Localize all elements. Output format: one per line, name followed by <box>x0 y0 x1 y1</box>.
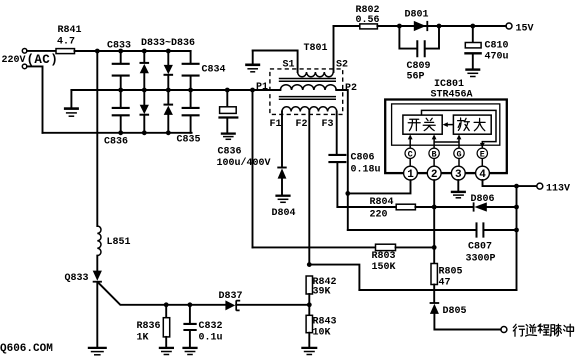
electrode circle G <box>454 148 464 158</box>
svg-text:B: B <box>432 149 437 159</box>
ground at mid rail left <box>70 90 72 108</box>
svg-text:47: 47 <box>439 278 451 289</box>
wire Q833 emitter diagonal <box>98 283 225 305</box>
svg-text:R805: R805 <box>439 267 463 278</box>
wire mid rail y90 <box>71 89 280 91</box>
wire top rail y51 <box>75 50 191 52</box>
svg-text:G: G <box>456 149 461 159</box>
wire AC bottom L-shape <box>27 66 43 132</box>
wire P1 column down <box>252 90 254 247</box>
terminal 113V <box>537 183 543 189</box>
node C832 <box>188 302 193 307</box>
svg-text:C836: C836 <box>104 137 128 148</box>
svg-text:R843: R843 <box>313 317 337 328</box>
wire pin2 column <box>433 180 435 263</box>
svg-text:R836: R836 <box>137 321 161 332</box>
pin 1 <box>404 166 418 180</box>
ground at Q833 <box>88 347 107 349</box>
core lines bottom <box>279 97 336 100</box>
electrode circle E <box>477 148 487 158</box>
svg-text:IC801: IC801 <box>434 79 464 90</box>
wire junction down to C807 line <box>347 193 349 230</box>
pin 4 <box>476 166 490 180</box>
diode D836 (col2 bottom, pointing up) <box>167 90 169 104</box>
arrow into 放大 from G <box>458 138 460 148</box>
diode D835 (col2 top, pointing down) <box>167 51 169 65</box>
svg-text:470u: 470u <box>485 52 509 63</box>
svg-text:0.1u: 0.1u <box>199 333 223 344</box>
node P1 <box>250 88 255 93</box>
svg-text:0.18u: 0.18u <box>351 165 381 176</box>
svg-text:D804: D804 <box>272 208 296 219</box>
svg-text:R841: R841 <box>58 25 82 36</box>
node R836 <box>164 302 169 307</box>
wire S2 up to 15V rail <box>333 26 335 72</box>
diode D805 <box>430 302 440 304</box>
svg-text:F2: F2 <box>296 119 308 130</box>
capacitor C806 <box>336 112 338 154</box>
svg-text:S1: S1 <box>283 60 295 71</box>
resistor R836 <box>165 305 167 318</box>
node D801 right <box>437 24 442 29</box>
svg-text:C: C <box>408 149 413 159</box>
svg-text:D805: D805 <box>443 306 467 317</box>
svg-text:150K: 150K <box>372 262 396 273</box>
resistor R841 <box>56 49 75 54</box>
terminal 行逆程脉冲 <box>501 327 507 333</box>
wire S1 to ground <box>253 51 298 73</box>
svg-text:39K: 39K <box>313 287 331 298</box>
svg-text:R803: R803 <box>372 251 396 262</box>
wire F2 node right and down <box>309 265 359 290</box>
label 行逆程脉冲 (horizontal retrace pulse) <box>513 324 524 336</box>
wire left column x97 down to L851 <box>96 51 98 226</box>
connectors electrode to pins <box>410 159 482 167</box>
svg-text:D801: D801 <box>405 10 429 21</box>
svg-text:D833~D836: D833~D836 <box>141 38 195 49</box>
transformer T801 dashed box <box>270 69 343 115</box>
svg-text:100u/400V: 100u/400V <box>217 157 271 169</box>
wire AC top to R841 <box>27 50 56 52</box>
svg-text:C809: C809 <box>407 61 431 72</box>
terminal 15V <box>506 23 512 29</box>
node R842/R843/D837 <box>307 302 312 307</box>
terminal 220V AC top <box>22 49 27 54</box>
resistor R803 <box>253 246 376 248</box>
wire 113V rail down <box>516 186 518 290</box>
wire bottom rail y133 <box>43 132 192 134</box>
wire pin4 to 113V <box>483 180 517 186</box>
ground at R843 <box>301 347 317 349</box>
IC801 outer box <box>385 100 507 174</box>
node D801 left <box>397 24 402 29</box>
node pin2/R804/D806 <box>432 205 437 210</box>
arrow into 开关 from B <box>433 138 435 148</box>
electrode circle C <box>405 148 415 158</box>
wire E vertical <box>481 143 483 148</box>
ground at D804 <box>275 195 290 197</box>
resistor R805 <box>431 264 437 285</box>
pin 2 <box>427 166 441 180</box>
diode D804 <box>281 112 283 167</box>
wire P2 down <box>336 90 348 193</box>
svg-text:15V: 15V <box>516 24 534 35</box>
svg-text:C832: C832 <box>199 321 223 332</box>
capacitor C807 <box>348 229 476 231</box>
svg-text:0.56: 0.56 <box>356 15 380 26</box>
resistor R843 <box>306 315 312 332</box>
ground at pin 3 <box>457 180 459 191</box>
winding F1-F2-F3 <box>282 107 337 112</box>
svg-text:(AC): (AC) <box>27 53 59 67</box>
diode D833 (col1 top, pointing up) <box>143 51 145 62</box>
wire F2 column down <box>308 112 310 265</box>
capacitor C810 electrolytic <box>472 26 474 42</box>
node P2/pin1 junction <box>345 191 350 196</box>
svg-text:C806: C806 <box>351 153 375 164</box>
svg-text:Q833: Q833 <box>65 273 89 284</box>
svg-text:C807: C807 <box>468 242 492 253</box>
svg-text:P1: P1 <box>256 82 268 93</box>
svg-text:S2: S2 <box>336 60 348 71</box>
wire link B to G <box>434 141 459 143</box>
svg-text:Q606.COM: Q606.COM <box>0 343 53 355</box>
node R803/pin2 column <box>432 245 437 250</box>
diode D834 (col1 bottom, pointing down) <box>143 90 145 105</box>
ground at R836 <box>159 347 174 349</box>
block 开关 (switch) <box>403 115 442 134</box>
electrode circle B <box>429 148 439 158</box>
svg-text:3300P: 3300P <box>466 254 496 265</box>
pin 3 <box>451 166 465 180</box>
winding P1-P2 primary <box>280 85 336 90</box>
svg-text:P2: P2 <box>345 83 357 94</box>
capacitor C832 <box>189 305 191 323</box>
wire D837 to R842 node <box>236 304 309 306</box>
ground at S1 <box>252 51 254 65</box>
capacitor C836 100u/400V electrolytic <box>225 88 230 93</box>
svg-text:C834: C834 <box>202 65 226 76</box>
wire 15V rail <box>334 25 360 27</box>
svg-text:1K: 1K <box>137 333 149 344</box>
svg-text:L851: L851 <box>107 237 131 248</box>
ground at C832 <box>182 347 197 349</box>
wire bottom link to 113V rail <box>359 289 516 291</box>
wire junction to pin 1 <box>348 180 411 193</box>
svg-text:220: 220 <box>370 210 388 221</box>
arrow into 开关 from C <box>409 138 411 148</box>
arrow from 放大 to 开关 <box>447 124 454 126</box>
svg-text:56P: 56P <box>407 72 425 83</box>
capacitor C809 parallel branch <box>399 26 439 49</box>
svg-text:10K: 10K <box>313 328 331 339</box>
svg-text:220V: 220V <box>2 55 26 66</box>
core lines top <box>279 79 336 82</box>
node R841/left-column junction <box>95 49 100 54</box>
feedback loop from 开关 top to E <box>422 110 497 143</box>
IC801 inner box <box>392 104 500 145</box>
node C810 <box>470 24 475 29</box>
svg-text:4.7: 4.7 <box>57 37 75 48</box>
block 放大 (amplifier) <box>453 115 491 134</box>
svg-text:T801: T801 <box>304 43 328 54</box>
node dots column C833 <box>118 49 123 54</box>
svg-text:F3: F3 <box>322 119 334 130</box>
terminal 220V AC bottom <box>22 64 27 69</box>
svg-text:F1: F1 <box>270 119 282 130</box>
svg-text:113V: 113V <box>546 184 570 195</box>
svg-text:C835: C835 <box>177 135 201 146</box>
resistor R842 <box>306 276 312 294</box>
svg-text:C836: C836 <box>218 147 242 158</box>
svg-text:E: E <box>480 149 485 159</box>
resistor R802 <box>360 24 378 29</box>
node F2/R842 junction <box>307 262 312 267</box>
svg-text:C810: C810 <box>485 41 509 52</box>
